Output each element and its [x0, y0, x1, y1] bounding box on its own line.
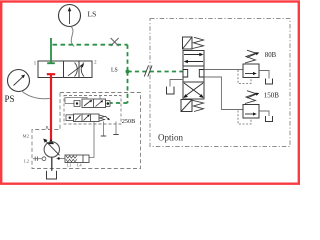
- node LS junction: [126, 70, 130, 74]
- compensator enclosure (dashed): [64, 96, 121, 125]
- wire from body top: [99, 96, 101, 100]
- relief valve 150B body: [243, 105, 259, 119]
- relief valve 80B body: [243, 64, 259, 78]
- tank T4: [47, 171, 57, 179]
- gauge PS: [8, 70, 30, 92]
- check fitting left: [74, 101, 80, 107]
- compensator valve bottom body: [74, 114, 100, 122]
- tank line from valve: [170, 80, 183, 87]
- pump stroke arrow: [45, 140, 60, 155]
- spring 150B: [245, 91, 256, 104]
- border frame: [1, 2, 299, 184]
- svg-text:Option: Option: [158, 133, 184, 143]
- LS port tee (green): [47, 62, 55, 64]
- tank T2: [266, 79, 273, 85]
- LS riser wire (green): [50, 38, 52, 64]
- svg-text:80B: 80B: [265, 52, 277, 59]
- pump outlet arrow: [48, 139, 54, 144]
- wire to compensator: [65, 103, 74, 105]
- svg-text:LS: LS: [88, 10, 97, 19]
- pilot wire 150B (dashed): [238, 111, 251, 125]
- spring 80B: [245, 50, 256, 63]
- LS wire horizontal (green dashed): [53, 44, 128, 46]
- LS wire vertical (green dashed): [127, 45, 129, 72]
- svg-text:LS: LS: [111, 67, 118, 73]
- hose from LS gauge to LS line: [71, 27, 74, 47]
- LS wire to option valve (green dashed): [128, 71, 184, 73]
- position b blocked ports: [183, 70, 204, 78]
- check fitting right: [106, 101, 111, 107]
- variable orifice: [68, 63, 84, 77]
- pilot wire 80B (dashed): [238, 70, 251, 84]
- pump unit enclosure (dashed L-shape): [32, 93, 141, 169]
- pressure port tee (red): [47, 73, 55, 75]
- position c crossed arrows: [184, 83, 203, 97]
- plug X on LS wire: [111, 38, 119, 46]
- svg-text:M2: M2: [23, 134, 30, 139]
- directional valve U1 body: [183, 51, 204, 100]
- compensator valve top body: [82, 99, 106, 108]
- drain stub 1: [103, 122, 105, 137]
- svg-text:250B: 250B: [122, 118, 135, 125]
- wire pump to servo: [57, 158, 66, 160]
- svg-text:PS: PS: [5, 94, 15, 104]
- servo springs: [66, 156, 77, 159]
- spring top: [193, 37, 204, 48]
- wire compensator to servo: [89, 122, 94, 158]
- gauge LS (top): [59, 5, 81, 27]
- tank T1: [167, 87, 175, 95]
- spring bottom: [193, 100, 204, 111]
- svg-text:L2: L2: [24, 158, 30, 163]
- check fitting left bottom: [66, 115, 74, 121]
- svg-text:150B: 150B: [264, 91, 280, 99]
- svg-text:1: 1: [34, 60, 37, 66]
- pilot loop wire: [65, 98, 87, 104]
- metering valve body: [38, 61, 92, 78]
- svg-text:B: B: [46, 125, 49, 130]
- hose from PS gauge to pressure line: [21, 91, 50, 99]
- adjust arrow: [105, 116, 109, 120]
- wire valve to 150B: [204, 77, 243, 110]
- drain stub 2: [115, 122, 117, 135]
- case drain port: [42, 157, 46, 161]
- tank T3: [266, 116, 273, 122]
- solenoid top: [183, 37, 193, 49]
- solenoid bottom: [181, 100, 192, 112]
- servo cylinder: [65, 155, 89, 163]
- svg-text:2: 2: [94, 59, 97, 65]
- svg-text:L1: L1: [67, 162, 72, 167]
- pump P1: [44, 142, 59, 157]
- pressure wire (red): [50, 74, 52, 140]
- wire pump to tank: [51, 157, 53, 171]
- spring right bottom: [99, 115, 105, 121]
- option enclosure (dashed): [150, 19, 290, 147]
- LS wire to compensator spring (green dashed): [110, 102, 128, 104]
- outlet 80B to tank: [259, 71, 269, 79]
- outlet 150B to tank: [259, 111, 269, 116]
- position a arrows: [184, 54, 201, 56]
- line break slashes: [144, 66, 152, 77]
- wire valve to 80B: [204, 69, 243, 71]
- LS wire down to compensator (green dashed): [127, 72, 129, 104]
